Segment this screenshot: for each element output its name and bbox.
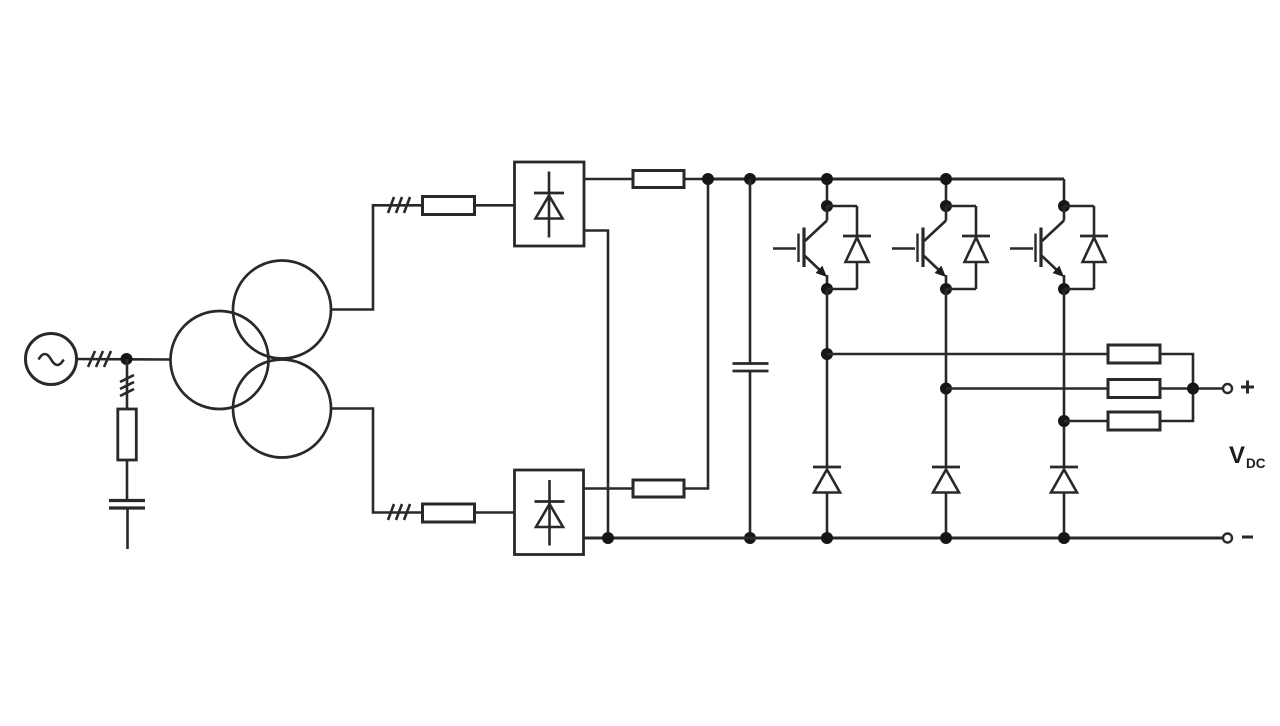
svg-text:V: V [1229,442,1245,469]
svg-text:DC: DC [1246,456,1266,471]
